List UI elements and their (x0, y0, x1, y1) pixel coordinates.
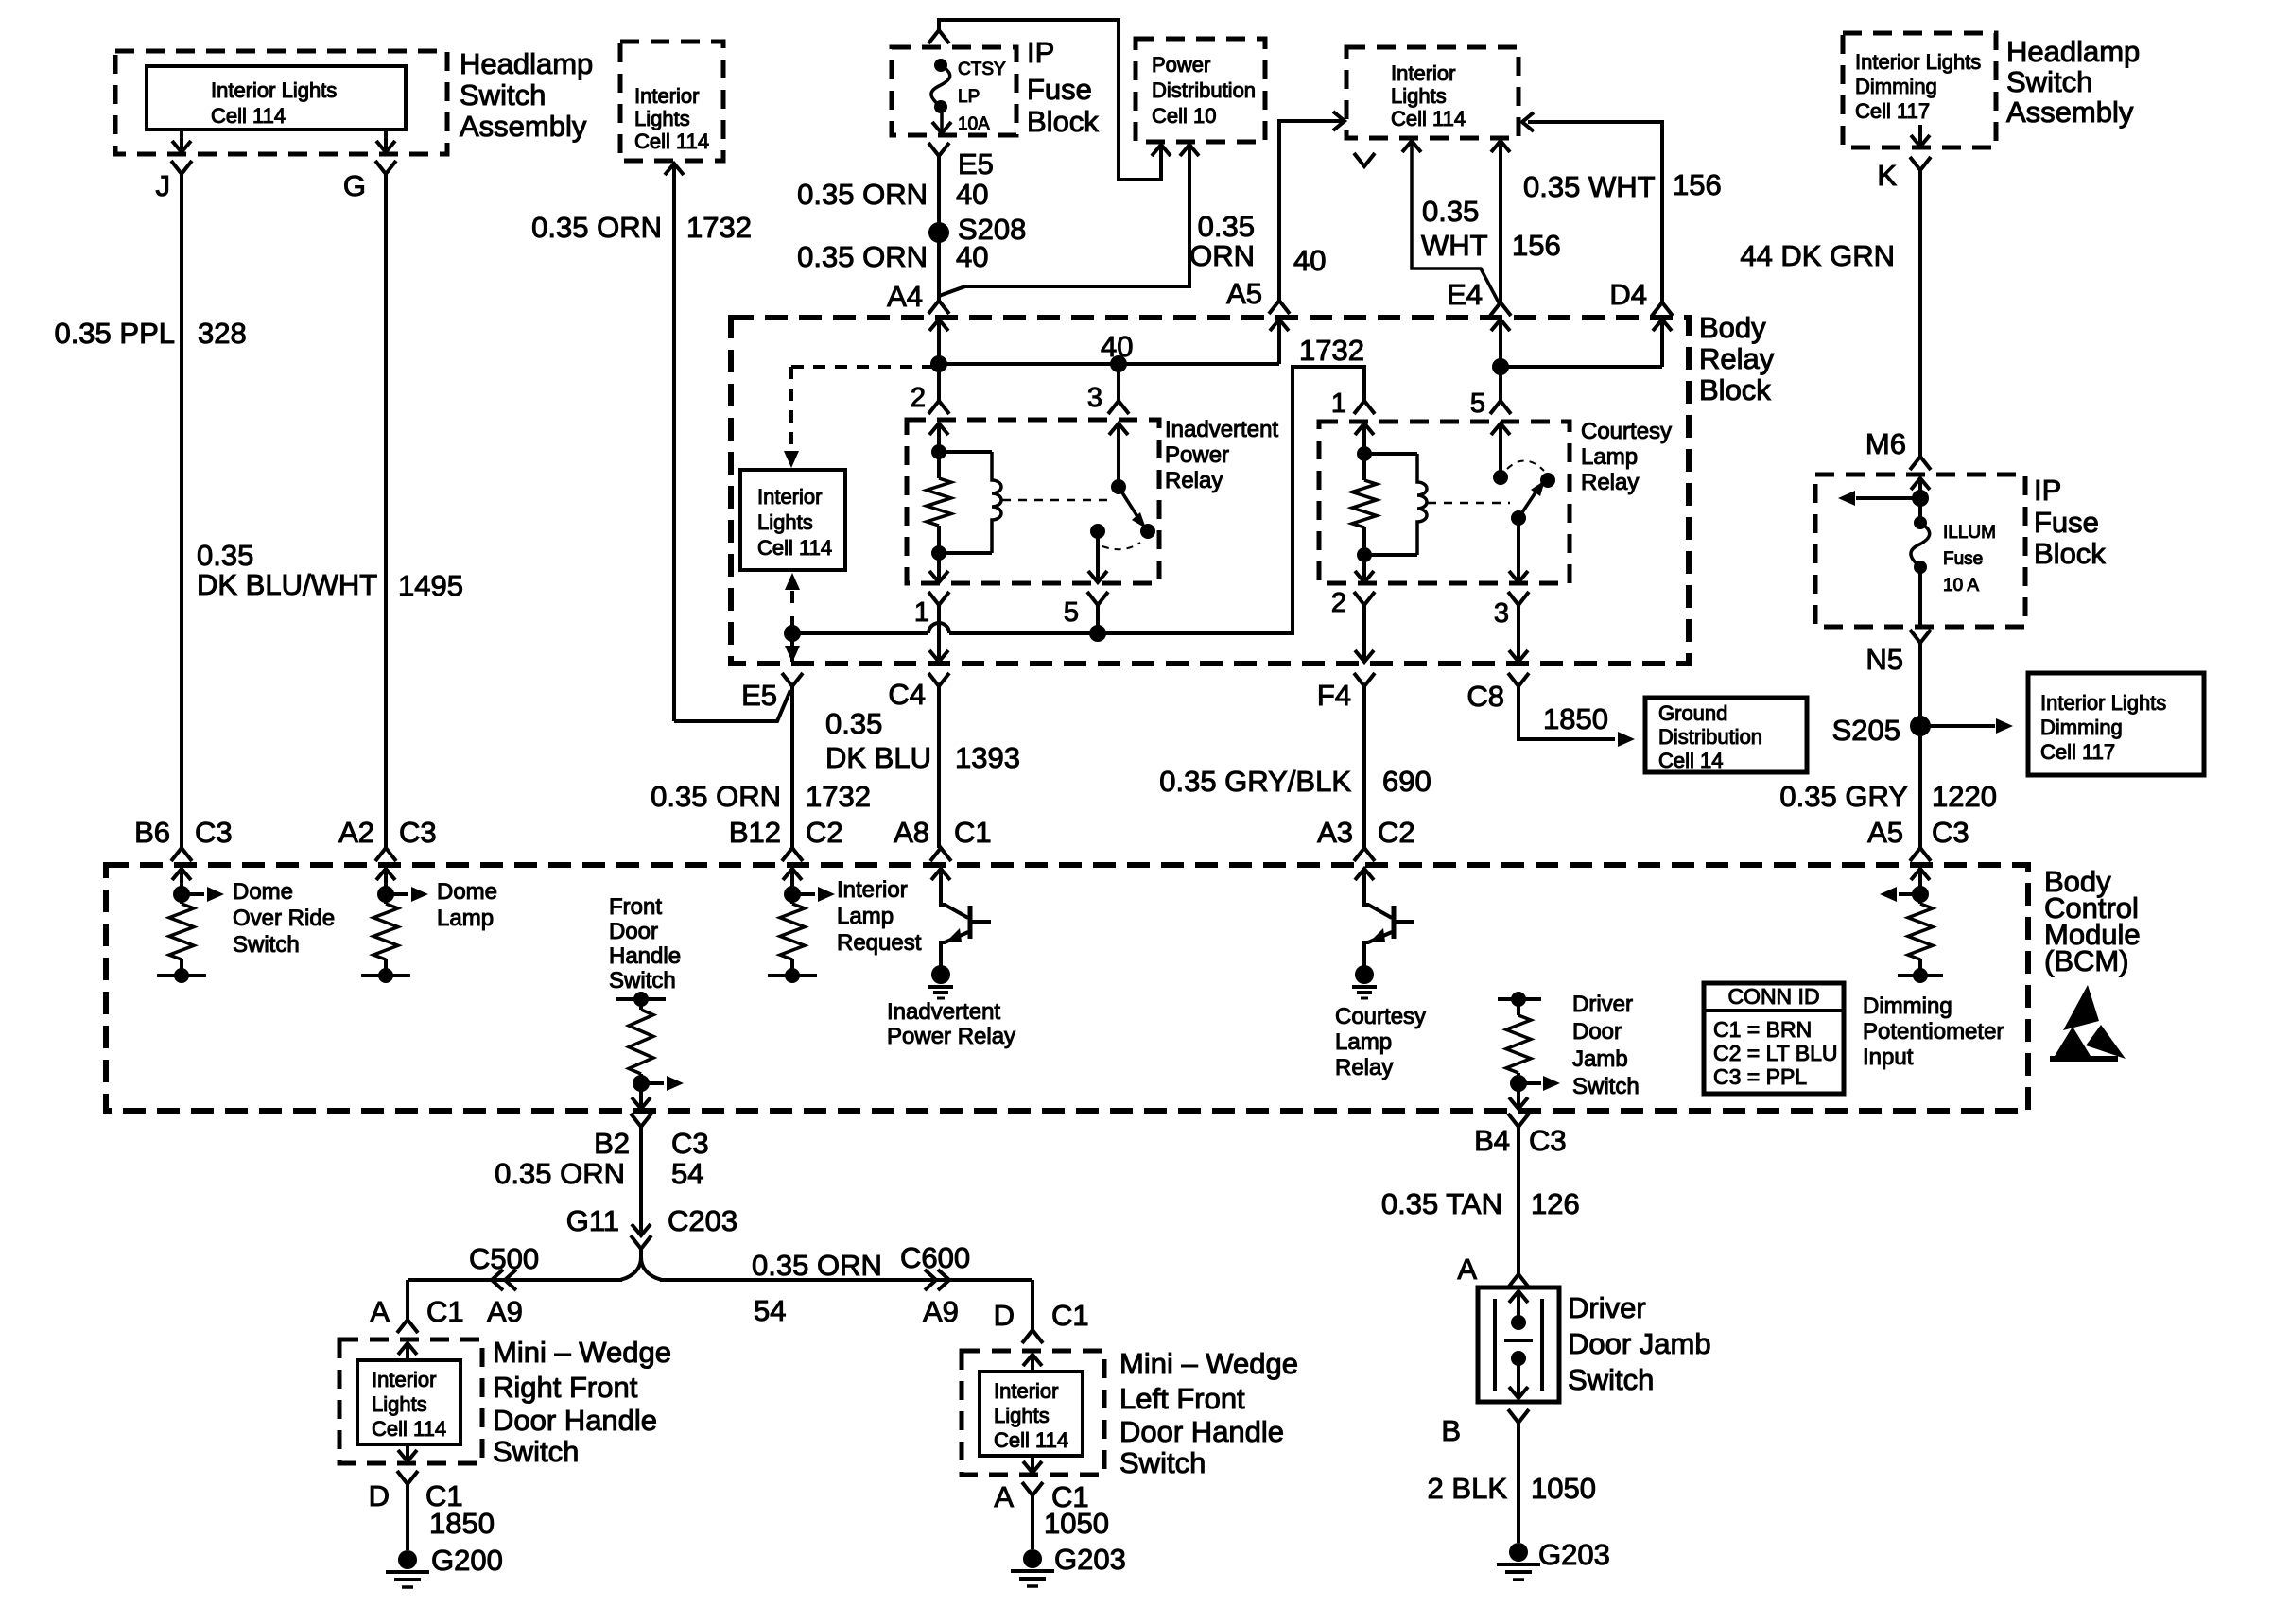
svg-text:Relay: Relay (1165, 468, 1223, 493)
arrow B12 into BCM (783, 869, 802, 894)
svg-text:Cell 117: Cell 117 (2040, 740, 2115, 764)
relay switch arm (inadvertent) (1119, 487, 1146, 528)
svg-text:WHT: WHT (1421, 229, 1488, 262)
connector G (343, 161, 396, 202)
svg-text:CONN ID: CONN ID (1727, 984, 1819, 1009)
pin 5 arrow (courtesy) (1491, 423, 1510, 477)
svg-text:C3: C3 (399, 816, 437, 849)
connector C4 (888, 673, 949, 711)
wire pin 5 to junction (1096, 605, 1100, 633)
svg-text:Switch: Switch (493, 1435, 579, 1468)
arrow at C203 (632, 1224, 651, 1235)
svg-text:Over Ride: Over Ride (233, 906, 335, 931)
svg-text:Interior: Interior (1391, 61, 1455, 85)
svg-text:A5: A5 (1226, 277, 1262, 310)
courtesy lamp relay transistor (1352, 879, 1414, 998)
dimming potentiometer resistor (1880, 886, 1943, 983)
svg-text:C1 = BRN: C1 = BRN (1713, 1017, 1812, 1042)
driver door jamb switch box (1478, 1287, 1559, 1402)
wire 1732 link (792, 367, 1364, 633)
svg-text:Relay: Relay (1699, 342, 1775, 375)
connector B6/C3 at BCM top (134, 816, 233, 861)
svg-text:Inadvertent: Inadvertent (887, 999, 1000, 1025)
interior lights cell 114 box (right front) (357, 1360, 460, 1444)
resistor (inadvertent relay) (927, 452, 951, 553)
label 0.35 DK BLU/WHT (197, 539, 377, 601)
svg-text:C3: C3 (195, 816, 233, 849)
label 0.35 TAN (1381, 1187, 1502, 1220)
label 54 (C600) (754, 1294, 786, 1327)
label headlamp switch assembly (right) (2006, 35, 2140, 129)
wire fuse to N5 (1918, 567, 1922, 627)
connector B12/C2 at BCM top (729, 816, 843, 861)
svg-text:G203: G203 (1054, 1543, 1126, 1576)
ground G203 (left front) (1011, 1543, 1126, 1586)
arrow E5 down (785, 646, 800, 663)
svg-text:E5: E5 (958, 147, 994, 181)
label inadvertent power relay (BCM) (887, 999, 1015, 1049)
label A5 (BCM) (1867, 816, 1903, 849)
node fuse block junction (1912, 490, 1929, 507)
label 1850 (G200) (429, 1507, 495, 1540)
svg-text:IP: IP (2034, 474, 2061, 507)
svg-text:A2: A2 (338, 816, 374, 849)
svg-text:1850: 1850 (1543, 702, 1608, 735)
svg-text:Door: Door (609, 919, 658, 944)
svg-text:CTSY: CTSY (958, 60, 1006, 79)
connector E5 (relay bottom) (741, 673, 803, 712)
svg-text:B2: B2 (594, 1127, 630, 1160)
label dimming potentiometer input (1863, 993, 2004, 1070)
arrow A3 into BCM (1355, 869, 1374, 894)
arrow up into interior lights box bottom (785, 573, 800, 603)
interior lights cell 114 dashed box (center) (1346, 47, 1518, 138)
svg-text:B12: B12 (729, 816, 781, 849)
node junction E4/D4 (1492, 358, 1509, 375)
label 156 (E4) (1512, 229, 1561, 262)
svg-text:1495: 1495 (398, 569, 463, 602)
interior lights cell 114 box (relay block) (740, 470, 845, 570)
svg-text:126: 126 (1531, 1187, 1580, 1220)
label 0.35 GRY (1779, 780, 1908, 813)
connector A2/C3 at BCM top (338, 816, 437, 861)
svg-text:0.35 TAN: 0.35 TAN (1381, 1187, 1502, 1220)
label front door handle switch (609, 894, 681, 993)
callout bracket 0.35 WHT (1402, 141, 1500, 304)
label 328 (198, 317, 247, 350)
svg-text:C1: C1 (426, 1295, 464, 1328)
pin 2 connector (courtesy) (1331, 588, 1375, 618)
relay coil wire top (courtesy) (1364, 452, 1417, 456)
wire F4 to A3 (1362, 686, 1366, 848)
driver door jamb switch resistor (BCM) (1498, 992, 1560, 1110)
wire D4 riser (1528, 122, 1662, 302)
inadvertent power relay dashed box (907, 420, 1159, 583)
wire fuse to A4 (937, 156, 941, 301)
connector E5 below fuse (928, 143, 949, 156)
wire J (0.35 PPL 328) (180, 174, 183, 848)
label 1393 (955, 741, 1020, 774)
wire B to G203 (2 BLK 1050) (1517, 1423, 1520, 1543)
connector D4 (1652, 302, 1673, 316)
svg-text:(BCM): (BCM) (2044, 944, 2129, 977)
svg-text:2 BLK: 2 BLK (1428, 1472, 1508, 1505)
connector A (door jamb) (1457, 1253, 1529, 1287)
relay switch pivot (inadvertent) (1111, 479, 1126, 494)
coil (courtesy relay) (1417, 454, 1427, 555)
connector A3/C2 at BCM top (1317, 816, 1415, 861)
svg-text:Switch: Switch (2006, 65, 2092, 98)
label 0.35 DK BLU (825, 707, 931, 774)
door jamb switch contacts (1495, 1291, 1542, 1398)
fuse ILLUM 10A (1911, 516, 1930, 574)
label courtesy lamp relay (BCM) (1335, 1004, 1426, 1080)
svg-text:Cell 114: Cell 114 (757, 536, 832, 560)
connector N5 (1865, 630, 1931, 676)
svg-text:Cell 117: Cell 117 (1855, 99, 1930, 123)
svg-text:Lamp: Lamp (437, 906, 494, 931)
svg-text:Body: Body (1699, 311, 1766, 344)
label mini-wedge right front door handle switch (493, 1336, 671, 1468)
connector M6 (1865, 427, 1931, 470)
svg-text:DK BLU/WHT: DK BLU/WHT (197, 568, 377, 601)
arrow A2 into BCM (376, 869, 395, 894)
relay switch contact dots (courtesy) (1511, 473, 1555, 526)
svg-text:E5: E5 (741, 679, 777, 712)
wire S205 to dimming box (1920, 724, 1995, 728)
svg-text:Power: Power (1165, 442, 1229, 468)
wire N5 to BCM (0.35 GRY) (1918, 643, 1922, 848)
svg-text:Jamb: Jamb (1572, 1046, 1628, 1072)
label 0.35 ORN (B2) (495, 1157, 625, 1190)
svg-text:5: 5 (1470, 389, 1485, 419)
label 40 (below S208) (956, 240, 988, 273)
arrow into ground distribution (1618, 732, 1635, 747)
svg-text:40: 40 (956, 178, 988, 211)
arrow B6 into BCM (172, 869, 191, 894)
svg-text:Dome: Dome (437, 879, 497, 905)
wire coil to pin 1 (inadvertent) (937, 553, 941, 582)
pin 1 connector (inadvertent) (914, 592, 949, 628)
body relay block dashed box (731, 318, 1689, 664)
svg-text:Courtesy: Courtesy (1581, 419, 1672, 444)
connector A5/C3 at BCM top (1910, 848, 1931, 861)
label 1732 (E5) (806, 780, 871, 813)
svg-text:Lights: Lights (372, 1392, 427, 1416)
wire A to G203 (1050) (1031, 1495, 1034, 1549)
relay coil wire bottom (courtesy) (1364, 553, 1417, 557)
wire D to G200 (1850) (406, 1484, 409, 1550)
svg-text:Request: Request (837, 930, 922, 956)
arrow F4 down (1355, 650, 1374, 662)
connector E4 (1490, 302, 1511, 316)
svg-text:D: D (994, 1299, 1015, 1332)
svg-text:Lights: Lights (634, 107, 690, 130)
svg-text:Dimming: Dimming (1863, 993, 1952, 1019)
svg-text:1732: 1732 (686, 211, 752, 244)
relay switch dashed link (inadvertent) (1002, 499, 1108, 502)
svg-text:Switch: Switch (460, 78, 546, 112)
svg-text:Dimming: Dimming (2040, 716, 2123, 739)
svg-text:Assembly: Assembly (2006, 95, 2134, 129)
svg-text:0.35: 0.35 (1422, 195, 1479, 228)
svg-text:A3: A3 (1317, 816, 1353, 849)
label inadvertent power relay (1165, 417, 1278, 493)
svg-text:Block: Block (1699, 373, 1771, 406)
svg-text:A: A (994, 1480, 1014, 1513)
label 1220 (1932, 780, 1997, 813)
arrow C4 down (929, 650, 948, 662)
wire pin 3 to C8 (1517, 605, 1520, 662)
arrow into mini-wedge right (398, 1343, 417, 1360)
wire contact to pin 5 (inadvertent) (1096, 531, 1100, 582)
svg-text:Lamp: Lamp (837, 904, 894, 929)
svg-text:E4: E4 (1447, 278, 1483, 311)
ground G200 (386, 1544, 503, 1587)
svg-text:Lights: Lights (757, 510, 813, 534)
label courtesy lamp relay (1581, 419, 1672, 495)
connector A5 (1269, 301, 1290, 314)
svg-text:2: 2 (911, 383, 926, 413)
svg-text:Right Front: Right Front (493, 1371, 638, 1404)
label 0.35 WHT (E4) (1421, 195, 1488, 262)
svg-text:Front: Front (609, 894, 662, 920)
relay coil wire top (inadvertent) (939, 450, 992, 454)
svg-text:G200: G200 (431, 1544, 503, 1577)
arrow into interior lights box bottom (E4) (1491, 141, 1510, 152)
svg-text:10 A: 10 A (1943, 576, 1979, 596)
pin K arrow (1911, 125, 1930, 147)
label 1050 (door jamb) (1531, 1472, 1596, 1505)
svg-text:F4: F4 (1317, 679, 1351, 712)
wire Y split (620, 1249, 662, 1280)
label 0.35 ORN (below S208) (797, 240, 928, 273)
courtesy lamp relay dashed box (1319, 422, 1570, 583)
node junction pin5/1732 (1089, 625, 1106, 642)
arrow into mini-wedge left (1023, 1355, 1042, 1372)
svg-text:Courtesy: Courtesy (1335, 1004, 1426, 1029)
label 126 (1531, 1187, 1580, 1220)
arrow C8 down (1509, 650, 1528, 662)
connector F4 (1317, 673, 1375, 712)
arrow into interior lights box left (1333, 112, 1345, 130)
svg-text:Fuse: Fuse (1027, 73, 1092, 106)
svg-text:0.35: 0.35 (197, 539, 253, 572)
wire E5 to B12 (790, 686, 794, 848)
svg-text:C3 = PPL: C3 = PPL (1713, 1064, 1807, 1089)
esd symbol (2050, 985, 2126, 1062)
label E4 (1447, 278, 1483, 311)
wire K to M6 (44 DK GRN) (1918, 170, 1922, 457)
resistor (courtesy relay) (1352, 454, 1377, 555)
connector A/C1 (right front) (370, 1295, 463, 1333)
svg-text:Relay: Relay (1335, 1055, 1393, 1080)
svg-text:C1: C1 (1051, 1299, 1089, 1332)
svg-text:G11: G11 (566, 1204, 619, 1237)
interior lights cell 114 box (headlamp left) (147, 66, 406, 130)
svg-text:Driver: Driver (1568, 1291, 1646, 1324)
splice S205 (1832, 714, 1931, 747)
wire to C500 (408, 1280, 622, 1320)
svg-text:Power Relay: Power Relay (887, 1024, 1015, 1049)
svg-text:40: 40 (1293, 244, 1326, 277)
label 0.35 GRY/BLK (1159, 765, 1351, 798)
pin 1 arrow down (inadvertent) (929, 571, 948, 582)
power distribution cell 10 dashed box (1136, 39, 1265, 142)
pin 2 arrow down (courtesy) (1355, 571, 1374, 582)
svg-text:Lights: Lights (1391, 84, 1447, 108)
svg-text:S205: S205 (1832, 714, 1900, 747)
svg-text:Interior Lights: Interior Lights (2040, 691, 2166, 715)
wire B2 to C203 (0.35 ORN 54) (639, 1127, 643, 1235)
node junction 1732/E5 (784, 625, 801, 642)
svg-text:0.35 ORN: 0.35 ORN (651, 780, 781, 813)
relay coil wire bottom (inadvertent) (939, 551, 992, 555)
svg-text:44 DK GRN: 44 DK GRN (1740, 239, 1895, 272)
pin 1 connector (courtesy) (1331, 389, 1375, 419)
relay switch dashed link (courtesy) (1428, 502, 1510, 505)
node junction A4/40 (930, 355, 947, 372)
relay coil node bottom (courtesy) (1357, 547, 1372, 562)
mini-wedge right front dashed box (339, 1339, 482, 1463)
svg-text:Power: Power (1152, 53, 1210, 77)
label 0.35 ORN (54) (752, 1249, 882, 1282)
arrow out of mini-wedge left (1023, 1456, 1042, 1473)
pin J arrow (172, 130, 191, 152)
wire E4 riser (1499, 141, 1502, 302)
wire contact to pin 3 (courtesy) (1517, 518, 1520, 582)
connector at fuse top (928, 30, 949, 43)
arrow inside fuse block left (1838, 491, 1920, 506)
interior lights dimming cell 117 box (2028, 673, 2204, 775)
svg-text:C203: C203 (668, 1204, 737, 1237)
svg-text:A9: A9 (487, 1295, 523, 1328)
connector J (156, 161, 193, 202)
label interior lamp request (837, 877, 922, 956)
front door handle switch resistor (616, 992, 684, 1110)
svg-text:Input: Input (1863, 1045, 1914, 1070)
svg-text:0.35 ORN: 0.35 ORN (531, 211, 662, 244)
wire A5 riser (1279, 121, 1343, 301)
svg-text:Interior Lights: Interior Lights (1855, 50, 1981, 74)
wire coil to pin 2 (courtesy) (1362, 555, 1366, 582)
svg-text:Door: Door (1572, 1019, 1622, 1045)
svg-text:0.35 ORN: 0.35 ORN (752, 1249, 882, 1282)
label dome over ride switch (233, 879, 335, 958)
wire G (1495) (384, 174, 388, 848)
wire below interior lights box (790, 616, 794, 662)
svg-text:0.35: 0.35 (825, 707, 882, 740)
svg-text:Inadvertent: Inadvertent (1165, 417, 1278, 442)
label body control module (2044, 865, 2141, 977)
label 44 DK GRN (1740, 239, 1895, 272)
splice S208 (928, 213, 1026, 246)
wire C4 to A8 (937, 686, 941, 848)
svg-text:C4: C4 (888, 678, 926, 711)
mini-wedge left front dashed box (962, 1351, 1104, 1475)
dashed wire to interior lights cell box (791, 367, 939, 446)
ground distribution cell 14 box (1645, 698, 1807, 772)
label ILLUM Fuse 10 A (1943, 523, 1996, 596)
svg-text:Potentiometer: Potentiometer (1863, 1019, 2004, 1045)
label 1050 (left front) (1044, 1507, 1109, 1540)
svg-text:IP: IP (1027, 36, 1054, 69)
ip fuse block dashed box (right) (1815, 475, 2025, 627)
svg-text:Switch: Switch (1572, 1074, 1640, 1099)
svg-text:B4: B4 (1474, 1124, 1510, 1157)
label driver door jamb switch (1568, 1291, 1711, 1396)
svg-text:A8: A8 (894, 816, 929, 849)
arrow A5 into relay block (1270, 320, 1289, 364)
arrow into interior lights box (relay) (784, 451, 799, 468)
label IP fuse block (right) (2034, 474, 2106, 570)
label mini-wedge left front door handle switch (1119, 1347, 1298, 1479)
wire 40 bus (939, 362, 1279, 366)
interior lights cell 114 dashed box (mid-left) (620, 42, 723, 161)
wire C8 to ground distribution (1518, 686, 1615, 739)
pin 3 arrow down (courtesy) (1509, 571, 1528, 582)
svg-text:1850: 1850 (429, 1507, 495, 1540)
svg-text:1: 1 (914, 597, 929, 628)
arrow E4 into relay block (1491, 320, 1510, 367)
svg-text:Dimming: Dimming (1855, 75, 1937, 98)
interior lamp request resistor (768, 886, 835, 983)
wire E5 branch to riser (674, 690, 790, 721)
svg-text:Distribution: Distribution (1658, 725, 1762, 749)
svg-text:3: 3 (1494, 598, 1509, 629)
svg-text:10A: 10A (958, 114, 990, 134)
connector C600 (900, 1241, 970, 1328)
node junction pin3 (1110, 355, 1127, 372)
label A4 (887, 280, 923, 313)
svg-text:0.35 ORN: 0.35 ORN (797, 178, 928, 211)
svg-text:54: 54 (671, 1157, 703, 1190)
label E5 (fuse) (958, 147, 994, 181)
svg-text:Cell 114: Cell 114 (1391, 107, 1466, 130)
pin 2 connector (911, 383, 949, 414)
svg-text:Mini – Wedge: Mini – Wedge (1119, 1347, 1298, 1380)
svg-text:Cell 114: Cell 114 (994, 1428, 1068, 1452)
interior lights cell 114 box (left front) (980, 1372, 1083, 1456)
pin 5 arrow down (inadvertent) (1088, 571, 1107, 582)
connector B4/C3 (1474, 1114, 1567, 1157)
pin 3 connector (courtesy) (1494, 592, 1529, 629)
svg-text:B: B (1441, 1414, 1461, 1447)
svg-text:40: 40 (956, 240, 988, 273)
svg-text:Switch: Switch (233, 932, 300, 958)
connector B (door jamb) (1441, 1409, 1529, 1447)
svg-text:Cell 14: Cell 14 (1658, 749, 1723, 772)
svg-text:D4: D4 (1609, 278, 1647, 311)
connector D/C1 (left front) (994, 1299, 1089, 1343)
svg-text:C600: C600 (900, 1241, 970, 1274)
arrow D4 into relay block (1653, 320, 1672, 367)
relay switch contact dots (inadvertent) (1090, 524, 1155, 539)
svg-text:Lamp: Lamp (1335, 1029, 1392, 1055)
arrow A5 into BCM (1911, 869, 1930, 894)
wire pin 1 to C4 (937, 605, 941, 662)
svg-text:Interior: Interior (634, 84, 699, 108)
arrow into interior lights dimming box (1996, 718, 2013, 734)
label 54 (B2) (671, 1157, 703, 1190)
svg-text:Interior: Interior (994, 1379, 1058, 1403)
label body relay block (1699, 311, 1775, 406)
relay switch travel arc (courtesy) (1507, 460, 1544, 471)
svg-text:1220: 1220 (1932, 780, 1997, 813)
label A5 (relay block) (1226, 277, 1262, 310)
svg-text:1050: 1050 (1044, 1507, 1109, 1540)
svg-text:Door Handle: Door Handle (493, 1404, 657, 1437)
